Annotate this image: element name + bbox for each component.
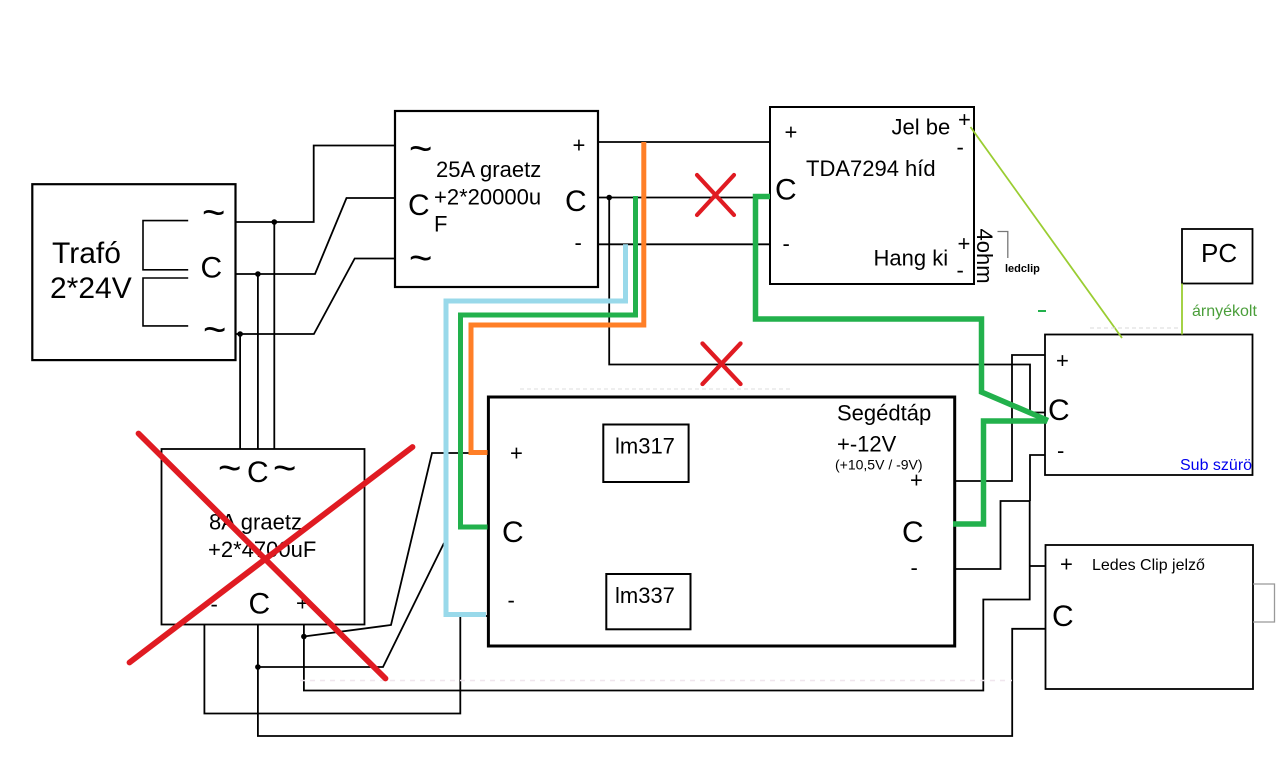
node junction trafo top: [272, 219, 278, 225]
green stray dash: [1038, 310, 1046, 312]
wire graetz - to TDA -: [598, 243, 770, 245]
svg-text:~: ~: [218, 447, 241, 491]
svg-text:lm317: lm317: [615, 434, 675, 459]
wire green TDA C to sub C: [756, 197, 1049, 421]
svg-text:Segédtáp: Segédtáp: [837, 401, 931, 426]
svg-text:-: -: [911, 555, 918, 580]
svg-text:4ohm: 4ohm: [972, 229, 997, 284]
svg-text:+-12V: +-12V: [837, 432, 897, 457]
wire trafo top to graetz ~: [236, 146, 396, 223]
svg-text:C: C: [565, 185, 587, 218]
wire 8A C down to ledes C: [258, 625, 1046, 737]
PC box: [1182, 229, 1253, 284]
red cross X2 over sub wire: [703, 344, 741, 385]
subwoofer filter box Sub szürö: [1045, 335, 1253, 476]
svg-text:ledclip: ledclip: [1005, 263, 1040, 275]
svg-text:+: +: [910, 468, 923, 493]
wire signal jel be to sub (shielded): [971, 127, 1123, 338]
svg-text:TDA7294 híd: TDA7294 híd: [806, 156, 936, 181]
faint artifact dash line 3: [300, 680, 1012, 682]
svg-text:C: C: [249, 588, 271, 621]
wire light blue graetz - to segedtap -: [446, 244, 626, 614]
svg-text:C: C: [1052, 600, 1074, 633]
svg-text:-: -: [575, 230, 582, 255]
wire green graetz C to segedtap C: [461, 196, 636, 527]
crossed-out rectifier box 8A graetz: [162, 449, 365, 625]
svg-text:-: -: [1057, 438, 1064, 463]
svg-text:~: ~: [409, 127, 432, 171]
wire down to 8A box left: [273, 222, 275, 449]
svg-text:Trafó: Trafó: [52, 237, 121, 270]
wire down to 8A box right: [239, 334, 241, 449]
amplifier box TDA7294 hid: [770, 107, 974, 284]
svg-text:-: -: [957, 135, 964, 160]
regulator box lm337: [606, 574, 690, 629]
wire trafo bottom to graetz ~: [236, 259, 396, 335]
svg-text:+: +: [958, 231, 971, 256]
svg-text:~: ~: [202, 191, 225, 235]
node junction trafo mid: [255, 271, 261, 277]
wire segedtap + to sub +: [955, 355, 1045, 481]
regulator box lm317: [603, 425, 688, 483]
faint artifact dash line 1: [1090, 327, 1180, 329]
wire green segedtap C to sub C: [953, 421, 1047, 524]
svg-text:PC: PC: [1201, 238, 1237, 268]
svg-text:Sub szürö: Sub szürö: [1180, 457, 1252, 474]
LED clip indicator box: [1046, 545, 1254, 689]
red cross X1 over graetz-TDA C wire: [697, 175, 734, 215]
wire graetz + to TDA +: [598, 141, 770, 143]
wire 8A + diagonal to segedtap +: [304, 453, 489, 637]
wire sub minus down to junction: [1030, 455, 1045, 501]
ledclip bracket: [998, 232, 1008, 259]
wire graetz C to TDA C: [598, 197, 770, 199]
svg-text:C: C: [1048, 394, 1070, 427]
wire 8A C diagonal stub: [258, 543, 444, 667]
wire segedtap - to ledes +: [304, 501, 1030, 691]
wire trafo C to graetz C: [236, 198, 396, 274]
svg-text:F: F: [434, 212, 447, 237]
svg-text:Ledes Clip jelző: Ledes Clip jelző: [1092, 557, 1205, 574]
svg-text:+: +: [958, 107, 971, 132]
svg-text:+: +: [1056, 348, 1069, 373]
big red X over 8A graetz box: [130, 434, 413, 679]
svg-text:+: +: [573, 133, 586, 158]
faint artifact dash line 2: [520, 388, 790, 390]
svg-text:Hang ki: Hang ki: [874, 246, 949, 271]
ledes box right notch: [1253, 584, 1275, 622]
svg-text:-: -: [957, 258, 964, 283]
svg-text:~: ~: [273, 447, 296, 491]
svg-text:C: C: [775, 174, 797, 207]
node junction 8A plus: [301, 634, 307, 640]
wire PC to sub (shielded): [1181, 284, 1183, 335]
svg-text:C: C: [247, 456, 269, 489]
svg-text:~: ~: [409, 237, 432, 281]
wire down to 8A box mid: [257, 274, 259, 449]
svg-text:2*24V: 2*24V: [50, 272, 132, 305]
wire graetz C down and right to sub minus: [609, 198, 1044, 413]
rectifier box 25A graetz: [395, 111, 598, 287]
transformer box Trafó 2*24V: [32, 184, 235, 360]
svg-text:-: -: [508, 588, 515, 613]
svg-text:+: +: [510, 441, 523, 466]
wire ledes + stub: [1030, 565, 1046, 567]
wire 8A - to segedtap -: [204, 616, 488, 714]
svg-text:+2*20000u: +2*20000u: [434, 185, 541, 210]
svg-text:+: +: [785, 120, 798, 145]
svg-text:+: +: [1060, 552, 1073, 577]
svg-text:C: C: [201, 252, 223, 285]
svg-text:-: -: [783, 231, 790, 256]
node junction trafo bottom: [237, 331, 243, 337]
winding symbol lower: [143, 278, 188, 326]
node junction 8A C: [255, 664, 261, 670]
svg-text:C: C: [502, 516, 524, 549]
aux supply box Segédtáp: [488, 397, 954, 646]
svg-text:C: C: [408, 189, 430, 222]
svg-text:lm337: lm337: [615, 583, 675, 608]
svg-text:Jel be: Jel be: [892, 115, 951, 140]
svg-text:C: C: [902, 516, 924, 549]
node junction graetz C: [606, 195, 612, 201]
svg-text:árnyékolt: árnyékolt: [1192, 303, 1257, 320]
winding symbol upper: [143, 221, 188, 270]
svg-text:~: ~: [203, 308, 226, 352]
svg-text:25A graetz: 25A graetz: [436, 157, 541, 182]
wire orange graetz + to segedtap +: [471, 142, 644, 453]
